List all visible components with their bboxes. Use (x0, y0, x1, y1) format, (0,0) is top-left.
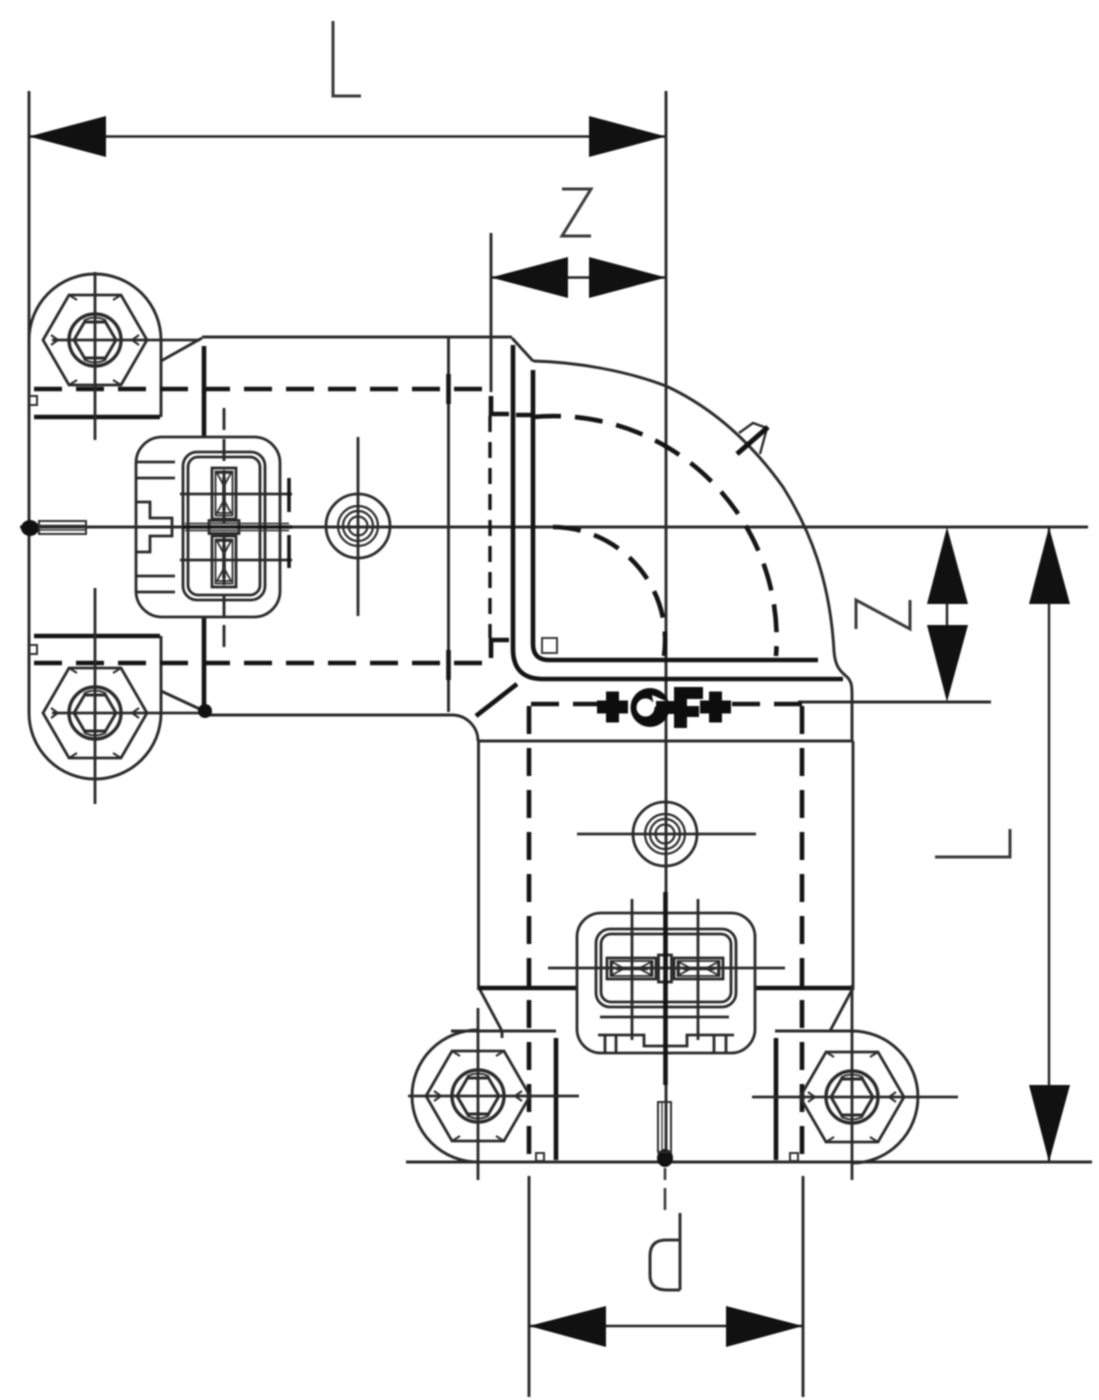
bottom clamp plate edge left thick (554, 1038, 559, 1160)
fusion dashed right of vertical socket (800, 706, 805, 1155)
dimension Z top: left arrowhead pointing left (491, 257, 568, 298)
striped centerline band in left block (185, 524, 289, 531)
bottom-left clamp plate top (451, 1031, 556, 1038)
dimension Z top: right arrowhead pointing right (589, 257, 666, 298)
bottom-right clamp boss circle (852, 1031, 918, 1163)
dimension L top: dimension line (29, 135, 666, 137)
bottom-left clamp plate top thick edge (34, 634, 160, 639)
dimension d bottom: right arrowhead (726, 1306, 803, 1347)
dimension L right: down arrowhead (1029, 1085, 1070, 1162)
bottom-right clamp plate top (775, 1030, 853, 1033)
pin column line right (697, 899, 700, 1040)
dimension L right: dimension line (1048, 527, 1050, 1162)
elbow outer curve (533, 361, 852, 741)
top-left clamp boss (29, 274, 161, 417)
vertical socket left edge (477, 741, 480, 990)
dashed step segment top (516, 413, 535, 418)
dimension Z top: label (562, 189, 591, 236)
ring tick at x=448 upper (446, 374, 451, 404)
block inner frame inner (188, 457, 260, 595)
vertical socket top face (478, 740, 852, 743)
block outer body (136, 437, 280, 617)
dimension d bottom: label (650, 1213, 680, 1290)
notch squares (29, 396, 798, 1161)
clamp ring line thick at x=204 lower (202, 616, 207, 707)
center contact square (209, 521, 239, 534)
bottom clamp plate edge right thick (774, 1038, 779, 1160)
block inner frame inner (601, 934, 731, 1002)
terminal pin upper (212, 468, 236, 519)
horizontal centerline of horizontal socket (20, 526, 1088, 529)
connector block left (136, 437, 292, 617)
bolt bottom-socket-left (426, 1051, 530, 1141)
boss bottom: circles (633, 802, 697, 866)
thick edges (34, 345, 852, 1160)
boss left: circles (326, 494, 390, 558)
clamp ring line thick at x=204 upper (202, 346, 207, 437)
pin row line lower (180, 559, 292, 562)
ring line thick at y=988 left (479, 986, 577, 991)
ring tick at x=448 lower (446, 650, 451, 680)
dimension L top: left arrowhead (29, 116, 106, 157)
ring line thick at y=988 right (755, 986, 852, 991)
junction dot bottom-left clamp (198, 704, 212, 718)
fusion dashed top of horizontal socket (34, 387, 484, 392)
bottom-left clamp boss (29, 636, 161, 779)
inner corner thick diagonal (476, 684, 517, 716)
terminal pin right (674, 958, 723, 979)
fusion dashed under logo right (732, 702, 802, 707)
fitting body outline group (161, 337, 1092, 1162)
heavy electrode bar left block (183, 525, 292, 528)
bottom mouth line (406, 1161, 1092, 1164)
top-left clamp diagonal (161, 338, 202, 361)
connector block bottom (548, 899, 785, 1053)
block left pin centerline dashed (223, 408, 226, 650)
bolt top-left (43, 295, 147, 385)
clamp ring right edge (447, 337, 450, 712)
bore end wall outer (513, 345, 843, 679)
dimension d bottom: dimension line (529, 1325, 803, 1327)
vertical socket right edge (852, 741, 855, 990)
bore end wall inner (533, 370, 818, 660)
+GF+ logo (597, 688, 731, 727)
block left zigzag (137, 502, 172, 552)
fusion step top (491, 396, 509, 414)
fusion dashed under logo left (531, 702, 597, 707)
fusion dashed bottom of horizontal socket (34, 661, 484, 666)
block inner frame outer (596, 929, 736, 1007)
dimension d bottom: extension line right (802, 1176, 805, 1397)
bottom-left clamp diagonal (161, 691, 204, 711)
bottom-left clamp boss circle (412, 1030, 478, 1162)
pin column line left (631, 899, 634, 1040)
top edge chamfer to elbow (512, 338, 533, 361)
pin row line upper (180, 493, 292, 496)
pin upper bowtie (217, 473, 231, 513)
bottom electrode rod (657, 1102, 673, 1167)
vertical centerline of vertical socket (665, 91, 668, 1163)
horizontal socket bottom edge (202, 714, 452, 717)
block inner frame outer (183, 452, 265, 600)
injection point tab (739, 423, 767, 454)
dimension d bottom: extension line left (528, 1176, 531, 1397)
terminal pin lower (212, 536, 236, 587)
boss bottom: horizontal centerline (577, 833, 756, 836)
dimension Z top: extension line (490, 233, 493, 392)
boss circles left (326, 437, 756, 866)
fusion zone dashed lines (thick) (34, 389, 802, 1155)
dimension d bottom: left arrowhead (529, 1306, 606, 1347)
dimension L top: label (333, 21, 361, 96)
block bottom feet line (600, 1016, 729, 1019)
left electrode rod (21, 520, 86, 536)
block left thick bars (287, 478, 291, 568)
fusion dashed left of vertical socket (527, 706, 532, 1155)
injection point slash (737, 427, 768, 454)
bolt bottom-left (43, 668, 147, 758)
dimension L right: up arrowhead (1029, 527, 1070, 604)
pin row centerline (548, 967, 785, 970)
bolt bottom-socket-right (800, 1052, 904, 1142)
fusion step bottom (491, 640, 509, 658)
horizontal socket top edge (202, 336, 512, 339)
dimension Z right: dimension line (946, 560, 948, 670)
dimension Z top: dimension line (491, 276, 666, 278)
block left tabs (137, 462, 175, 592)
inner dashed arc of elbow (553, 527, 665, 656)
dimension L top: extension line left (28, 91, 31, 713)
block feet and center step (605, 1035, 726, 1053)
bottom-left bottom clamp diagonal (479, 988, 502, 1031)
dimension Z right: down arrowhead (927, 625, 968, 702)
dimension L top: right arrowhead (589, 116, 666, 157)
corner notch square (542, 638, 557, 653)
bottom-right bottom clamp diagonal (830, 988, 853, 1031)
dimension L right: label (rotated) (935, 829, 1010, 857)
bolts (43, 272, 958, 1180)
terminal pin left (607, 958, 656, 979)
heavy electrode bar bottom block (663, 892, 668, 1085)
dimension Z right: label (rotated) (856, 600, 910, 629)
center contact square (659, 955, 672, 982)
clamps (29, 274, 918, 1163)
block outer body (577, 913, 755, 1053)
pin right bowtie (679, 962, 718, 975)
top-left clamp plate bottom thick edge (34, 415, 160, 420)
boss left: vertical centerline (357, 437, 360, 616)
dimension Z right: lower reference line (798, 701, 991, 704)
middle dashed arc of elbow (533, 416, 777, 656)
inner corner fillet (452, 715, 478, 741)
dimension Z right: up arrowhead (927, 527, 968, 604)
pin lower bowtie (217, 541, 231, 581)
dashed bore-end vertical line (488, 416, 491, 638)
pin left bowtie (612, 962, 651, 975)
